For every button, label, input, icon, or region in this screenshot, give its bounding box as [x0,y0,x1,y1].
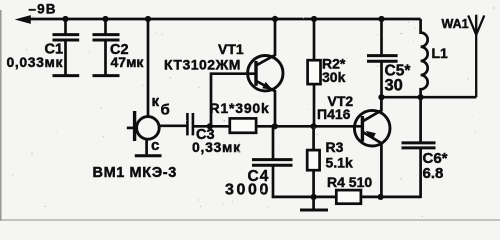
wire: bottom rail left [272,196,337,199]
capacitor C3 [187,113,230,135]
label C5* [385,63,412,80]
svg-text:30k: 30k [322,69,346,85]
node: VT1 emitter / C4 junction [272,123,278,129]
label 6.8 [423,165,444,182]
svg-text:б: б [161,102,170,119]
transistor VT1 [248,19,283,126]
antenna WA1 [468,15,484,97]
svg-text:0,33мк: 0,33мк [192,139,241,155]
transistor VT2 [354,97,390,197]
node: VT1 collector junction [272,16,278,22]
node: C3/R1/base junction [207,123,213,129]
resistor R1 [230,118,363,132]
label VT2 [328,93,354,109]
svg-text:0,033мк: 0,033мк [7,54,64,70]
capacitor C4 [252,126,293,198]
svg-text:R3: R3 [326,139,344,155]
scan border left [0,10,2,221]
label 5.1k [326,155,353,171]
svg-text:47мк: 47мк [111,54,145,70]
label 47mk [111,54,145,70]
capacitor C6 [402,97,436,198]
label R4 510 [327,174,372,190]
wire: bottom rail right [361,196,421,199]
label 0,033mk [7,54,64,70]
svg-text:3000: 3000 [225,181,271,198]
label c (mic pin) [151,137,159,154]
resistor R3 [307,126,319,197]
label 0,33mk [192,139,241,155]
node: C5/VT2 collector junction [378,94,384,100]
label -9V [29,2,57,17]
resistor R4 [336,190,361,204]
svg-text:R1*390k: R1*390k [210,100,270,116]
capacitor C1 [53,19,80,76]
microphone BM1 [127,111,187,156]
label 30 [385,77,403,95]
wire: tank bottom rail [382,96,477,99]
svg-text:5.1k: 5.1k [326,155,353,171]
node: ground junction [311,194,317,200]
svg-text:30: 30 [385,77,403,95]
label 3000 [225,181,271,198]
wire: mic collector riser [147,19,150,117]
label R3 [326,139,344,155]
scan border bottom [0,219,500,221]
label b (mic pin) [161,102,170,119]
label C4 [248,168,270,185]
wire: -9V power rail [27,18,421,21]
arrow -9V supply [15,15,31,24]
label C6* [423,150,448,167]
node: R2/R3/VT2 base junction [311,123,317,129]
node: C5 top junction [378,16,384,22]
svg-text:WA1: WA1 [442,17,469,31]
label C2 [110,42,129,58]
inductor L1 [421,19,428,97]
node: R2 top junction [311,16,317,22]
resistor R2 [308,19,321,126]
label KT3102ZhM [164,57,241,73]
svg-text:L1: L1 [432,45,449,61]
label R2* [322,56,346,72]
svg-text:VT1: VT1 [218,41,244,57]
svg-text:к: к [152,93,160,110]
node: mic collector junction [145,16,151,22]
label R1*390k [210,100,270,116]
label 30k [322,69,346,85]
node: VT2 emitter junction [378,194,384,200]
ground [300,197,328,210]
capacitor C5 [367,19,398,97]
label WA1 [442,17,469,31]
label k (mic pin) [152,93,160,110]
node: L1/C6 junction [418,94,424,100]
label BM1 MKE-3 [93,165,177,181]
svg-text:6.8: 6.8 [423,165,444,182]
label L1 [432,45,449,61]
wire: VT1 base riser [211,74,256,127]
node: C2 top junction [102,16,108,22]
label VT1 [218,41,244,57]
capacitor C2 [93,19,120,76]
label P416 [317,106,351,122]
label C1 [45,42,64,58]
svg-text:–9В: –9В [29,2,57,17]
svg-text:ВМ1 МКЭ-3: ВМ1 МКЭ-3 [93,165,177,181]
svg-text:R4 510: R4 510 [327,174,372,190]
label C3 [196,127,215,143]
svg-text:П416: П416 [317,106,351,122]
svg-text:КТ3102ЖМ: КТ3102ЖМ [164,57,241,73]
node: C1 top junction [62,16,68,22]
